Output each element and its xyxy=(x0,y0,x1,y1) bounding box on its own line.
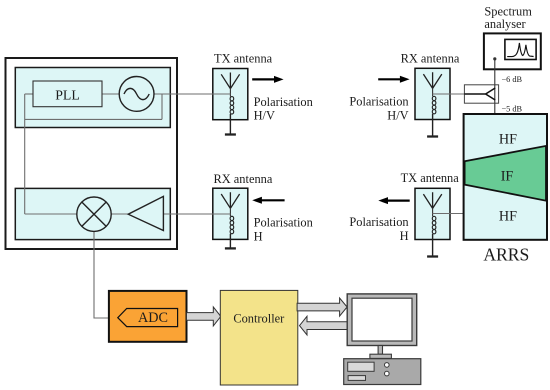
mixer / amplifier cyan sub-box xyxy=(15,188,170,239)
tower slot xyxy=(348,376,365,381)
svg-text:ADC: ADC xyxy=(138,310,168,326)
RX antenna box (top right) xyxy=(415,68,450,119)
svg-text:PLL: PLL xyxy=(55,87,80,102)
controller box xyxy=(220,290,297,385)
svg-text:HF: HF xyxy=(499,208,517,224)
svg-text:Polarisation: Polarisation xyxy=(254,95,313,109)
wire PLL to oscillator xyxy=(102,93,120,95)
wire amplifier to RX antenna xyxy=(163,213,230,215)
coupler through-wire xyxy=(494,85,496,103)
LO / PLL cyan sub-box xyxy=(15,68,170,128)
monitor stand neck xyxy=(378,346,382,355)
ADC box xyxy=(109,291,187,342)
svg-text:H/V: H/V xyxy=(387,108,408,122)
svg-text:H: H xyxy=(400,229,409,243)
svg-text:ARRS: ARRS xyxy=(483,245,529,265)
svg-text:Polarisation: Polarisation xyxy=(349,95,408,109)
wire feedback horizontal xyxy=(25,118,162,120)
junction dot xyxy=(493,57,496,60)
TX antenna box (bottom right) xyxy=(415,188,450,239)
computer tower xyxy=(344,359,421,385)
wire LO to mixer xyxy=(25,213,77,215)
wire analyser to coupler to ARRS xyxy=(494,59,496,114)
svg-text:Polarisation: Polarisation xyxy=(254,216,313,230)
wire LO rail vertical xyxy=(24,94,26,214)
wire into PLL xyxy=(25,93,33,95)
wire mixer to amplifier xyxy=(111,213,128,215)
bus arrow ADC to controller xyxy=(187,307,221,326)
svg-text:TX antenna: TX antenna xyxy=(401,171,460,185)
ground RX right xyxy=(432,114,434,137)
wire mixer to ADC xyxy=(94,231,109,318)
tower drive bay xyxy=(348,362,374,371)
analyser screen xyxy=(505,39,536,59)
monitor screen xyxy=(352,298,412,341)
ARRS box xyxy=(464,114,547,240)
svg-text:IF: IF xyxy=(501,169,514,185)
wire TX right to ARRS xyxy=(433,213,464,215)
svg-text:H/V: H/V xyxy=(254,109,275,123)
svg-text:RX antenna: RX antenna xyxy=(401,51,460,65)
ground TX right xyxy=(432,234,434,256)
wire oscillator to TX antenna xyxy=(154,93,231,95)
svg-text:Polarisation: Polarisation xyxy=(349,215,408,229)
spectrum trace xyxy=(507,43,533,57)
TX antenna box (top left) xyxy=(213,69,248,120)
ADC pentagon tag xyxy=(118,309,178,327)
arrow polarisation in (left) xyxy=(262,199,285,201)
PLL block xyxy=(33,81,102,107)
mixer xyxy=(77,197,111,231)
IF trapezoid xyxy=(465,146,546,201)
arrow into RX right xyxy=(378,78,400,80)
coupler fork xyxy=(464,88,495,100)
bus arrow controller to computer xyxy=(297,298,347,316)
tower button 1 xyxy=(385,363,390,368)
svg-text:Controller: Controller xyxy=(233,312,285,326)
ground TX left xyxy=(229,114,231,134)
svg-text:RX antenna: RX antenna xyxy=(214,172,273,186)
svg-text:TX antenna: TX antenna xyxy=(214,52,273,66)
svg-text:analyser: analyser xyxy=(484,17,526,31)
coupler box xyxy=(464,85,498,103)
left instrument outer box xyxy=(6,58,178,249)
wire feedback tap down xyxy=(161,94,163,119)
arrow polarisation out (right) xyxy=(252,78,274,80)
RX antenna box (middle left) xyxy=(213,188,248,239)
bus arrow computer to controller xyxy=(300,316,348,335)
spectrum analyser box xyxy=(484,33,541,69)
ground RX left xyxy=(229,234,231,249)
svg-text:−6 dB: −6 dB xyxy=(502,75,523,84)
monitor stand base xyxy=(370,354,392,358)
svg-text:−5 dB: −5 dB xyxy=(502,104,523,113)
oscillator U1 xyxy=(119,77,154,112)
amplifier xyxy=(128,196,163,230)
tower button 2 xyxy=(385,371,390,376)
svg-text:H: H xyxy=(254,230,263,244)
svg-text:HF: HF xyxy=(499,131,517,147)
computer monitor xyxy=(347,294,417,346)
arrow out TX right (left) xyxy=(388,200,410,202)
wire RX right to coupler xyxy=(433,93,465,95)
